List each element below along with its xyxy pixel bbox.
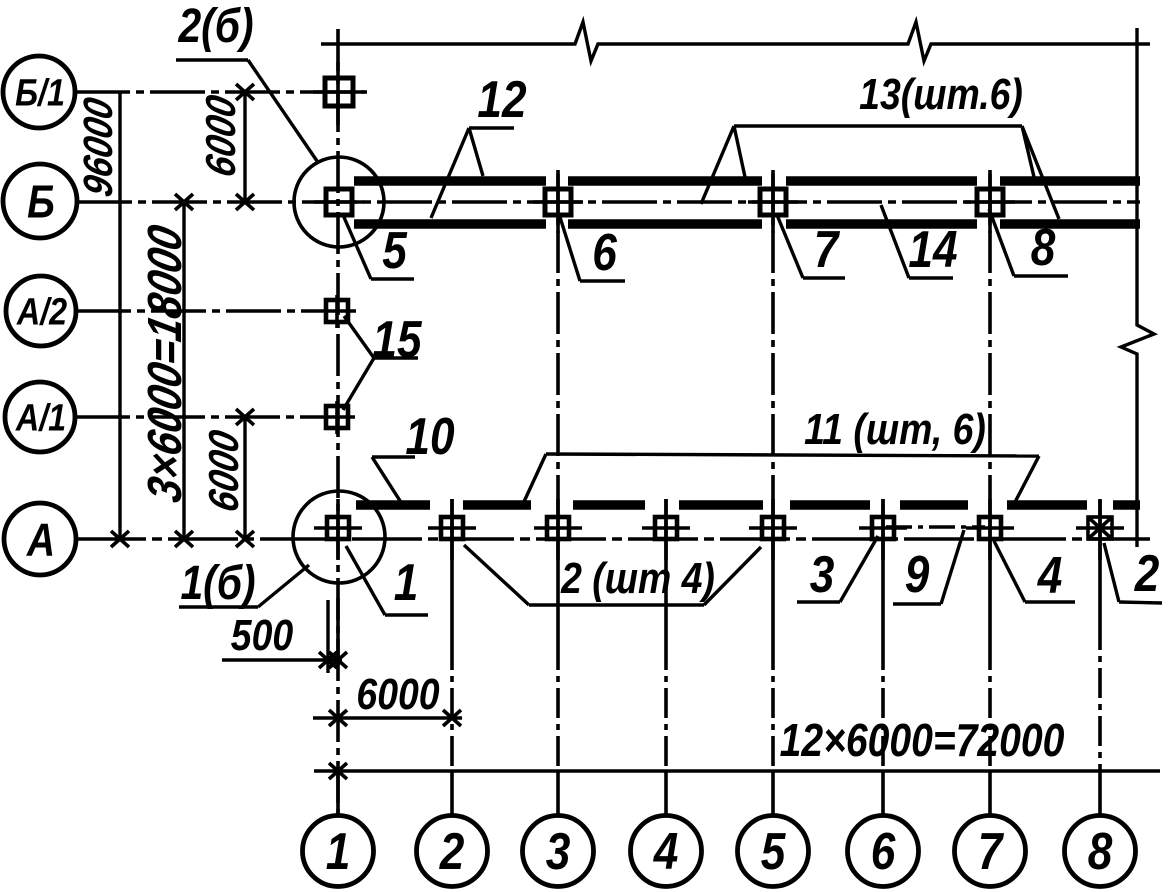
svg-text:3: 3 xyxy=(810,546,835,604)
svg-text:1: 1 xyxy=(326,823,351,881)
svg-text:8: 8 xyxy=(1088,823,1113,881)
svg-text:3: 3 xyxy=(546,823,571,881)
svg-text:6: 6 xyxy=(592,224,618,282)
svg-text:2 (шт 4): 2 (шт 4) xyxy=(560,553,715,603)
svg-text:11 (шт, 6): 11 (шт, 6) xyxy=(804,404,986,454)
svg-text:6: 6 xyxy=(871,823,897,881)
svg-text:3×6000=18000: 3×6000=18000 xyxy=(137,221,191,507)
svg-text:4: 4 xyxy=(653,823,679,881)
svg-text:5: 5 xyxy=(761,823,787,881)
svg-text:8: 8 xyxy=(1031,219,1056,277)
svg-text:7: 7 xyxy=(978,823,1005,881)
svg-text:7: 7 xyxy=(814,221,841,279)
svg-text:4: 4 xyxy=(1037,547,1063,605)
svg-text:2: 2 xyxy=(1134,545,1160,603)
svg-text:А: А xyxy=(26,515,55,567)
svg-text:2(б): 2(б) xyxy=(178,0,254,53)
svg-text:12: 12 xyxy=(477,71,526,129)
svg-text:15: 15 xyxy=(372,311,422,369)
svg-text:2: 2 xyxy=(439,823,465,881)
svg-text:5: 5 xyxy=(382,222,408,280)
svg-text:А/2: А/2 xyxy=(16,291,68,333)
svg-text:6000: 6000 xyxy=(201,426,248,515)
svg-text:6000: 6000 xyxy=(356,669,439,719)
svg-text:1(б): 1(б) xyxy=(180,557,255,610)
svg-text:Б/1: Б/1 xyxy=(15,72,65,114)
svg-text:6000: 6000 xyxy=(198,91,245,180)
svg-text:Б: Б xyxy=(27,177,55,229)
svg-text:А/1: А/1 xyxy=(15,397,66,439)
svg-text:13(шт.6): 13(шт.6) xyxy=(859,69,1023,119)
svg-text:96000: 96000 xyxy=(76,93,122,200)
svg-text:12×6000=72000: 12×6000=72000 xyxy=(780,715,1065,767)
svg-text:1: 1 xyxy=(394,554,419,612)
svg-text:9: 9 xyxy=(905,546,930,604)
svg-text:500: 500 xyxy=(231,610,294,660)
svg-text:14: 14 xyxy=(908,221,957,279)
